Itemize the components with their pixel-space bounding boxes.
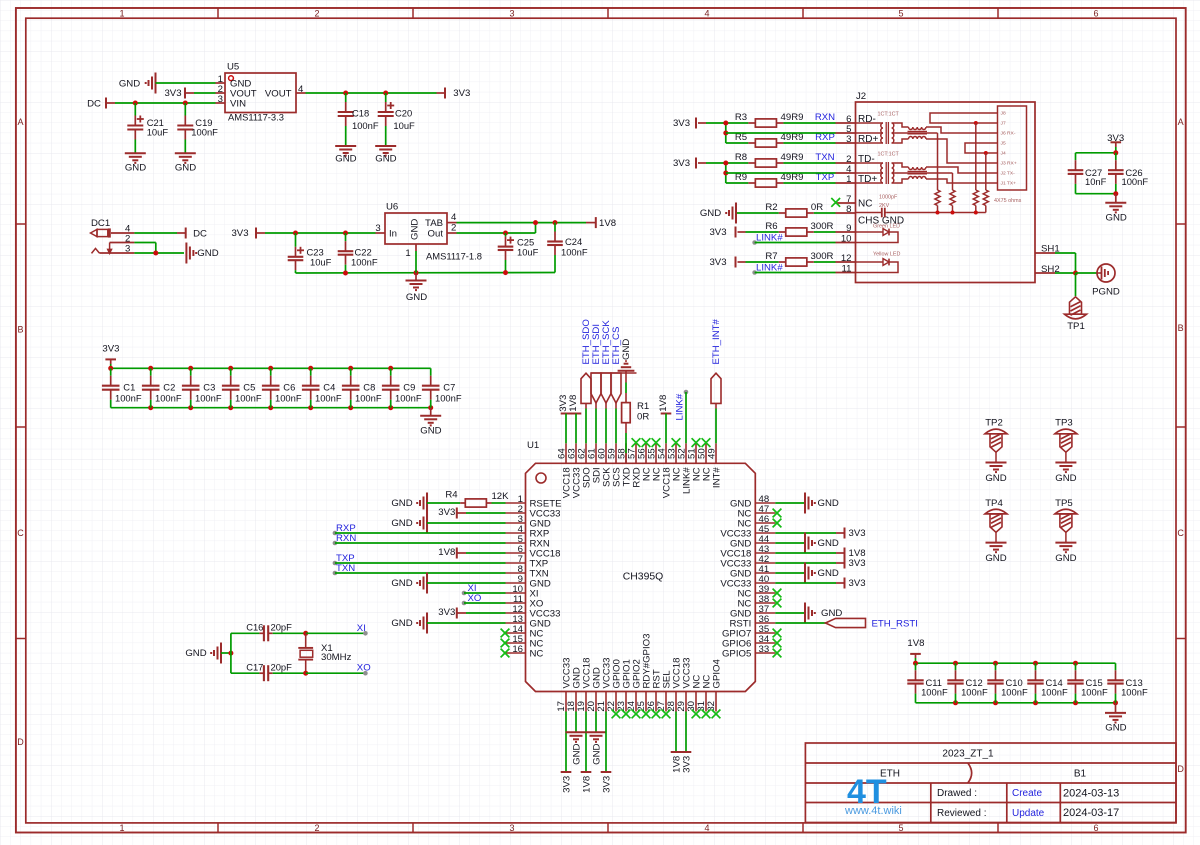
- svg-text:C9: C9: [403, 382, 415, 393]
- svg-text:DC1: DC1: [91, 218, 110, 229]
- svg-text:3V3: 3V3: [561, 776, 572, 793]
- node 3V3 pin29: [685, 712, 687, 753]
- svg-text:TP4: TP4: [985, 498, 1003, 509]
- svg-text:3V3: 3V3: [438, 607, 455, 618]
- svg-text:5: 5: [898, 823, 903, 833]
- wire TX+: [926, 179, 998, 183]
- svg-text:16: 16: [512, 644, 523, 655]
- junction: [533, 220, 538, 225]
- svg-text:ETH_RSTI: ETH_RSTI: [872, 619, 918, 630]
- svg-text:GND: GND: [391, 518, 412, 529]
- svg-text:RXN: RXN: [815, 112, 835, 123]
- ground: [1115, 703, 1117, 713]
- svg-text:GND: GND: [409, 219, 420, 240]
- svg-text:100nF: 100nF: [1041, 686, 1068, 697]
- junction: [303, 671, 308, 676]
- net XI: [363, 631, 368, 636]
- svg-text:1: 1: [119, 823, 124, 833]
- wire: [194, 92, 216, 94]
- svg-text:C: C: [1177, 528, 1184, 538]
- svg-text:C20: C20: [395, 108, 412, 119]
- svg-text:NC: NC: [858, 198, 872, 209]
- svg-text:GND: GND: [420, 426, 441, 437]
- svg-text:3V3: 3V3: [453, 88, 470, 99]
- svg-text:3: 3: [509, 8, 514, 18]
- svg-text:3V3: 3V3: [601, 776, 612, 793]
- svg-text:GND: GND: [818, 498, 839, 509]
- wire: [134, 232, 177, 234]
- svg-text:J3 RX+: J3 RX+: [1001, 161, 1017, 167]
- svg-text:AMS1117-1.8: AMS1117-1.8: [426, 251, 482, 262]
- node 1V8 pin28: [675, 712, 677, 753]
- svg-text:U6: U6: [386, 202, 398, 213]
- svg-text:30MHz: 30MHz: [321, 652, 352, 663]
- transformer TD: [856, 162, 884, 164]
- svg-text:1CT:1CT: 1CT:1CT: [878, 151, 900, 157]
- junction: [343, 271, 348, 276]
- junction: [133, 101, 138, 106]
- svg-text:1CT:1CT: 1CT:1CT: [878, 111, 900, 117]
- capacitor 1000pF 2KV: [856, 212, 882, 214]
- capacitor C11: [915, 663, 917, 670]
- junction: [1113, 150, 1118, 155]
- svg-text:100nF: 100nF: [435, 393, 462, 404]
- capacitor C9: [390, 368, 392, 375]
- svg-text:1V8: 1V8: [438, 547, 455, 558]
- node 3V3 pin40: [775, 582, 836, 584]
- svg-text:4X75 ohms: 4X75 ohms: [994, 198, 1022, 204]
- svg-text:100nF: 100nF: [235, 393, 262, 404]
- node 3V3 pin45: [775, 532, 836, 534]
- wire: [296, 92, 306, 94]
- net XI: [462, 591, 467, 596]
- capacitor C24: [554, 223, 556, 232]
- U1 top pins 64-49: [565, 443, 567, 463]
- svg-text:49: 49: [706, 448, 717, 459]
- wire: [1076, 272, 1097, 274]
- svg-text:GND: GND: [1105, 723, 1126, 734]
- svg-text:1V8: 1V8: [599, 218, 616, 229]
- svg-text:VIN: VIN: [230, 98, 246, 109]
- svg-text:U5: U5: [227, 62, 239, 73]
- svg-text:U1: U1: [527, 440, 539, 451]
- capacitor C8: [350, 368, 352, 375]
- svg-text:J6 RX-: J6 RX-: [1001, 131, 1016, 137]
- svg-text:GND: GND: [700, 208, 721, 219]
- svg-text:100nF: 100nF: [315, 393, 342, 404]
- svg-text:Out: Out: [428, 228, 444, 239]
- wire: [265, 232, 376, 234]
- svg-text:J4: J4: [1001, 151, 1006, 157]
- resistor R2: [737, 212, 779, 214]
- svg-text:3: 3: [509, 823, 514, 833]
- svg-text:J7: J7: [1001, 121, 1006, 127]
- wire 3V3 rail: [111, 367, 431, 369]
- svg-text:R2: R2: [765, 202, 777, 213]
- svg-text:3V3: 3V3: [849, 558, 866, 569]
- svg-text:C1: C1: [123, 382, 135, 393]
- svg-text:3: 3: [846, 134, 851, 145]
- svg-text:100nF: 100nF: [191, 126, 218, 137]
- svg-text:C: C: [17, 528, 24, 538]
- svg-text:3V3: 3V3: [102, 344, 119, 355]
- title block: [805, 743, 1176, 823]
- svg-text:GND: GND: [391, 578, 412, 589]
- junction: [723, 121, 728, 126]
- wire gnd rail: [296, 272, 556, 275]
- svg-text:GND: GND: [375, 153, 396, 164]
- svg-text:1V8: 1V8: [568, 395, 579, 412]
- ground pin37: [775, 612, 805, 614]
- resistor R8: [706, 162, 748, 164]
- svg-text:TP2: TP2: [985, 418, 1003, 429]
- svg-text:3V3: 3V3: [164, 88, 181, 99]
- resistor 75R d: [983, 190, 988, 206]
- wire gnd rail: [916, 702, 1116, 704]
- svg-text:LINK#: LINK#: [756, 233, 783, 244]
- ground: [430, 408, 432, 416]
- svg-text:R6: R6: [765, 221, 777, 232]
- svg-text:49R9: 49R9: [781, 152, 804, 163]
- resistor 75R a: [935, 190, 940, 206]
- capacitor C19: [184, 103, 186, 116]
- svg-text:100nF: 100nF: [355, 393, 382, 404]
- J2 RJ45 pin box: [998, 106, 1027, 190]
- no-connect bottom 30-32: [692, 710, 701, 719]
- node 3V3 pin21: [605, 712, 607, 773]
- svg-text:100nF: 100nF: [1001, 686, 1028, 697]
- net XO: [462, 601, 467, 606]
- svg-text:DC: DC: [87, 99, 101, 110]
- capacitor C26: [1115, 153, 1117, 160]
- net RXP: [333, 531, 338, 536]
- svg-text:GND: GND: [406, 292, 427, 303]
- U1 right pins 48-33: [755, 502, 775, 504]
- svg-text:INT#: INT#: [712, 467, 723, 488]
- node 1V8: [595, 217, 597, 228]
- capacitor C5: [230, 368, 232, 375]
- resistor R5: [726, 142, 749, 144]
- svg-text:GND: GND: [1106, 212, 1127, 223]
- svg-text:GND: GND: [197, 248, 218, 259]
- capacitor C3: [190, 368, 192, 375]
- junction: [1113, 191, 1118, 196]
- svg-text:100nF: 100nF: [961, 686, 988, 697]
- ground at U6: [415, 273, 417, 281]
- net RXN: [333, 541, 338, 546]
- svg-text:GND: GND: [335, 153, 356, 164]
- svg-text:C24: C24: [565, 236, 582, 247]
- junction: [303, 631, 308, 636]
- svg-text:LINK#: LINK#: [674, 393, 685, 420]
- svg-text:1: 1: [119, 8, 124, 18]
- no-connect 47,46: [773, 509, 782, 518]
- resistor R3: [706, 122, 748, 124]
- power PGND: [1097, 264, 1115, 282]
- svg-text:GND: GND: [818, 568, 839, 579]
- capacitor C7: [430, 368, 432, 375]
- svg-text:GND: GND: [985, 473, 1006, 484]
- ground: [125, 152, 146, 154]
- junction: [984, 151, 988, 155]
- svg-text:www.4t.wiki: www.4t.wiki: [844, 805, 902, 817]
- testpoint TP1: [1070, 297, 1082, 314]
- svg-text:100nF: 100nF: [275, 393, 302, 404]
- choke RD: [892, 123, 909, 127]
- svg-text:100nF: 100nF: [1081, 686, 1108, 697]
- svg-text:Create: Create: [1012, 788, 1042, 799]
- svg-text:10uF: 10uF: [310, 256, 332, 267]
- svg-text:3: 3: [218, 94, 223, 105]
- no-connect bottom 22-27: [612, 710, 621, 719]
- frame zone ticks and labels: [217, 8, 219, 18]
- capacitor C18: [345, 93, 347, 102]
- svg-text:VOUT: VOUT: [265, 88, 292, 99]
- ground: [375, 145, 396, 147]
- svg-text:4: 4: [451, 212, 457, 223]
- svg-text:100nF: 100nF: [115, 393, 142, 404]
- capacitor C4: [310, 368, 312, 375]
- svg-text:1V8: 1V8: [581, 776, 592, 793]
- svg-text:GND: GND: [391, 618, 412, 629]
- pin U6-1 wire: [415, 244, 417, 251]
- svg-text:6: 6: [1093, 8, 1098, 18]
- svg-text:11: 11: [842, 263, 852, 274]
- resistor 75R b: [950, 190, 955, 206]
- svg-text:3V3: 3V3: [709, 257, 726, 268]
- choke TD: [892, 163, 909, 167]
- wire gnd rail: [111, 407, 431, 409]
- svg-text:300R: 300R: [811, 221, 834, 232]
- junction: [936, 211, 940, 215]
- no-connect 14-16: [501, 629, 510, 638]
- svg-text:C5: C5: [243, 382, 255, 393]
- svg-text:GPIO4: GPIO4: [712, 659, 723, 689]
- svg-text:GPIO5: GPIO5: [722, 648, 751, 659]
- svg-text:GND: GND: [1055, 553, 1076, 564]
- svg-text:J5: J5: [1001, 141, 1006, 147]
- svg-text:2024-03-17: 2024-03-17: [1063, 807, 1119, 819]
- svg-text:In: In: [389, 229, 397, 240]
- junction: [108, 366, 113, 371]
- resistor R9: [726, 182, 749, 184]
- svg-text:PGND: PGND: [1092, 287, 1120, 298]
- svg-text:10nF: 10nF: [1085, 176, 1107, 187]
- svg-text:100nF: 100nF: [352, 120, 379, 131]
- svg-text:C3: C3: [203, 382, 215, 393]
- wire TX-: [926, 167, 998, 173]
- svg-text:1000pF: 1000pF: [879, 194, 898, 200]
- svg-text:C4: C4: [323, 382, 335, 393]
- svg-text:GND: GND: [985, 553, 1006, 564]
- svg-text:TP5: TP5: [1055, 498, 1073, 509]
- junction: [913, 661, 918, 666]
- svg-text:10: 10: [841, 233, 852, 244]
- U1 bottom pins 17-32: [565, 692, 567, 712]
- svg-text:GND: GND: [621, 339, 632, 360]
- svg-text:LINK#: LINK#: [756, 263, 783, 274]
- svg-text:GND: GND: [818, 538, 839, 549]
- capacitor C12: [955, 663, 957, 670]
- node 3V3 pin17: [565, 712, 567, 769]
- svg-text:C6: C6: [283, 382, 295, 393]
- svg-text:100nF: 100nF: [1122, 176, 1149, 187]
- svg-text:2KV: 2KV: [879, 203, 890, 209]
- svg-text:9: 9: [846, 223, 851, 234]
- wire: [134, 252, 184, 254]
- svg-text:300R: 300R: [811, 251, 834, 262]
- wire RX+: [926, 139, 998, 163]
- svg-text:TP1: TP1: [1067, 321, 1085, 332]
- svg-text:TXN: TXN: [336, 563, 355, 574]
- resistor R6: [746, 231, 779, 233]
- svg-text:1: 1: [405, 248, 410, 259]
- wire Out: [447, 232, 457, 234]
- svg-text:CH395Q: CH395Q: [623, 572, 663, 583]
- crystal X1: [305, 633, 307, 648]
- wire: [1076, 193, 1116, 195]
- net XO: [363, 671, 368, 676]
- svg-text:J2 TX-: J2 TX-: [1001, 171, 1016, 177]
- junction: [228, 651, 233, 656]
- svg-text:3V3: 3V3: [849, 578, 866, 589]
- svg-text:AMS1117-3.3: AMS1117-3.3: [228, 112, 284, 123]
- wire: [115, 102, 216, 104]
- svg-text:3V3: 3V3: [709, 227, 726, 238]
- ground pin48: [775, 502, 805, 504]
- junction: [343, 91, 348, 96]
- svg-text:3V3: 3V3: [849, 528, 866, 539]
- ground pin41: [775, 572, 805, 574]
- capacitor C15: [1075, 663, 1077, 670]
- svg-text:0R: 0R: [637, 412, 649, 423]
- svg-text:D: D: [17, 737, 24, 747]
- svg-text:J8: J8: [1001, 111, 1006, 117]
- junction: [1073, 271, 1078, 276]
- junction: [153, 251, 158, 256]
- capacitor C1: [110, 368, 112, 375]
- U1 left pins 1-16: [506, 502, 526, 504]
- no-connect 35-33: [773, 629, 782, 638]
- svg-text:GND: GND: [125, 163, 146, 174]
- svg-text:2: 2: [451, 222, 456, 233]
- capacitor C22: [345, 233, 347, 241]
- wire J8-J7: [930, 113, 998, 123]
- resistor R7: [746, 261, 779, 263]
- svg-text:B: B: [1178, 323, 1184, 333]
- svg-text:12K: 12K: [491, 491, 509, 502]
- svg-text:33: 33: [759, 644, 770, 655]
- svg-text:100nF: 100nF: [395, 393, 422, 404]
- resistor 75R c: [973, 190, 978, 206]
- svg-text:100nF: 100nF: [921, 686, 948, 697]
- svg-text:TP3: TP3: [1055, 418, 1073, 429]
- svg-text:Update: Update: [1012, 808, 1045, 819]
- svg-text:C2: C2: [163, 382, 175, 393]
- svg-text:100nF: 100nF: [561, 247, 588, 258]
- svg-text:R1: R1: [637, 401, 649, 412]
- wire TAB: [447, 222, 457, 224]
- svg-text:Reviewed :: Reviewed :: [937, 808, 986, 819]
- svg-text:J2: J2: [856, 91, 866, 102]
- svg-text:NC: NC: [530, 648, 544, 659]
- svg-text:20pF: 20pF: [271, 621, 293, 632]
- net LINK# wire: [752, 240, 757, 245]
- svg-text:1V8: 1V8: [658, 395, 669, 412]
- net TXN: [333, 571, 338, 576]
- svg-text:C17: C17: [246, 661, 263, 672]
- ground pin44: [775, 542, 805, 544]
- svg-text:3: 3: [375, 223, 380, 234]
- svg-text:A: A: [17, 117, 23, 127]
- node 1V8 pin19: [585, 712, 587, 773]
- wire center tap RD: [726, 132, 836, 134]
- svg-text:2024-03-13: 2024-03-13: [1063, 788, 1119, 800]
- svg-text:TXN: TXN: [815, 152, 834, 163]
- svg-text:GND: GND: [821, 608, 842, 619]
- port ETH_RSTI: [775, 622, 825, 624]
- node DC: [177, 232, 186, 234]
- svg-text:J1 TX+: J1 TX+: [1001, 181, 1017, 187]
- resistor R1: [625, 373, 627, 383]
- svg-text:Drawed :: Drawed :: [937, 788, 977, 799]
- no-connect pin7: [836, 202, 856, 204]
- svg-text:R7: R7: [765, 251, 777, 262]
- svg-text:B1: B1: [1074, 769, 1087, 780]
- capacitor C20: [385, 93, 387, 102]
- capacitor C2: [150, 368, 152, 375]
- svg-text:R3: R3: [735, 112, 747, 123]
- ground: [175, 152, 196, 154]
- net TXP: [333, 561, 338, 566]
- capacitor C21: [134, 103, 136, 116]
- ground GND at DC1: [185, 243, 187, 264]
- svg-text:8: 8: [846, 204, 851, 215]
- node 3V3: [437, 92, 446, 94]
- svg-text:100nF: 100nF: [155, 393, 182, 404]
- svg-text:3V3: 3V3: [438, 507, 455, 518]
- svg-text:10uF: 10uF: [147, 126, 169, 137]
- svg-text:20pF: 20pF: [271, 661, 293, 672]
- svg-text:C16: C16: [246, 621, 263, 632]
- svg-text:2: 2: [314, 823, 319, 833]
- svg-text:10uF: 10uF: [393, 120, 415, 131]
- svg-text:3V3: 3V3: [681, 756, 692, 773]
- svg-text:2: 2: [314, 8, 319, 18]
- svg-text:2023_ZT_1: 2023_ZT_1: [942, 748, 994, 759]
- wire: [221, 652, 231, 654]
- wire: [230, 633, 232, 673]
- svg-text:Yellow LED: Yellow LED: [873, 252, 900, 258]
- svg-text:RXN: RXN: [336, 533, 356, 544]
- capacitor C13: [1115, 663, 1117, 670]
- svg-text:C8: C8: [363, 382, 375, 393]
- svg-text:R4: R4: [445, 490, 458, 501]
- svg-text:100nF: 100nF: [1121, 686, 1148, 697]
- svg-text:GND: GND: [591, 743, 602, 764]
- wire: [306, 632, 366, 634]
- svg-text:XO: XO: [357, 663, 371, 674]
- svg-text:ETH_INT#: ETH_INT#: [711, 319, 722, 365]
- svg-text:C7: C7: [443, 382, 455, 393]
- wire gnd rail J2: [937, 206, 939, 213]
- wire J5-J4: [965, 143, 998, 153]
- wire: [985, 153, 987, 190]
- capacitor C6: [270, 368, 272, 375]
- wire TD tap: [892, 172, 953, 174]
- svg-text:4: 4: [704, 823, 709, 833]
- svg-text:Green LED: Green LED: [873, 224, 900, 230]
